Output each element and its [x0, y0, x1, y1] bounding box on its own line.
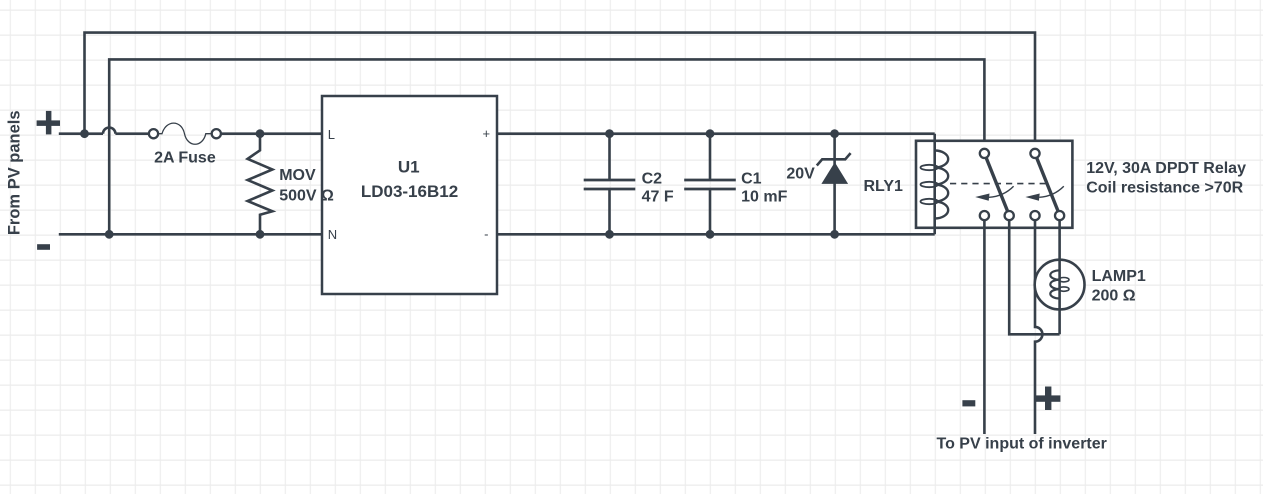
- svg-text:-: -: [484, 227, 488, 242]
- junction dots: [80, 129, 839, 238]
- wire pole2 throw2 down to lamp top: [1058, 220, 1061, 334]
- svg-text:500V Ω: 500V Ω: [279, 187, 334, 204]
- node plus terminal left (From PV panels +): [37, 111, 60, 134]
- svg-text:U1: U1: [398, 157, 420, 176]
- svg-text:2A Fuse: 2A Fuse: [154, 150, 216, 167]
- relay coil stem: [933, 134, 936, 235]
- svg-text:To PV input of inverter: To PV input of inverter: [937, 435, 1107, 452]
- op-amp U1 box LD03-16B12 converter: [322, 96, 497, 294]
- svg-text:MOV: MOV: [279, 167, 316, 184]
- svg-text:200 Ω: 200 Ω: [1092, 288, 1136, 305]
- wire hop over vertical wire at x109: [103, 127, 115, 133]
- svg-text:C1: C1: [741, 170, 762, 187]
- wire U1 + output rail to relay coil: [497, 132, 935, 135]
- capacitor C2 top stem: [608, 134, 611, 180]
- wire U1 - output rail to relay coil: [497, 233, 935, 236]
- svg-text:20V: 20V: [786, 166, 815, 183]
- wire bottom negative rail left segment: [59, 233, 322, 236]
- fuse F1 left circle: [149, 129, 158, 138]
- relay pole1 throw contacts: [980, 211, 989, 220]
- relay pole1 top contact: [980, 149, 989, 158]
- wire top positive rail start to fuse: [59, 132, 103, 135]
- wire pole2 throw1 down with hop to plus output: [1035, 220, 1042, 434]
- lamp LAMP1 circle: [1035, 260, 1085, 310]
- capacitor C1 bottom stem: [709, 189, 712, 234]
- wire W2 bottom rail to relay pole1 top: [109, 59, 984, 234]
- relay pole2 switch arm: [1037, 158, 1058, 210]
- capacitor C1 plates: [684, 180, 736, 189]
- svg-text:RLY1: RLY1: [864, 178, 904, 195]
- svg-text:12V, 30A DPDT Relay: 12V, 30A DPDT Relay: [1086, 160, 1246, 177]
- relay RLY1 box: [916, 141, 1072, 228]
- svg-text:LAMP1: LAMP1: [1092, 268, 1146, 285]
- svg-text:+: +: [483, 126, 491, 141]
- zener diode D1 20V vertical wire: [833, 134, 836, 235]
- svg-text:10 mF: 10 mF: [741, 189, 787, 206]
- wire fuse to U1 L pin: [221, 132, 322, 135]
- svg-text:C2: C2: [642, 170, 663, 187]
- relay arrow pole2: [1039, 186, 1064, 197]
- wire hop-to-fuse segment: [115, 132, 148, 135]
- relay coil loops: [935, 151, 949, 219]
- zener diode D1 triangle: [821, 162, 848, 184]
- svg-text:47 F: 47 F: [642, 189, 674, 206]
- lamp LAMP1 stem through bulb: [1058, 260, 1061, 310]
- relay pole1 switch arm: [986, 158, 1007, 210]
- relay dashed actuation line: [950, 183, 1046, 185]
- relay pole2 top contact: [1030, 149, 1039, 158]
- svg-text:LD03-16B12: LD03-16B12: [361, 182, 458, 201]
- zener diode D1 cathode bar with ticks: [817, 153, 851, 165]
- fuse F1 wave element: [158, 123, 211, 144]
- node plus terminal right (To PV input +): [1036, 387, 1060, 411]
- relay pole2 throw contacts: [1030, 211, 1039, 220]
- capacitor C1 top stem: [709, 134, 712, 180]
- svg-text:From PV panels: From PV panels: [6, 110, 24, 235]
- wire pole1 throw1 down to minus output: [983, 220, 986, 434]
- wire W1 plus rail to relay pole2 top: [85, 33, 1036, 149]
- wire pole1 throw2 down and right to lamp: [1009, 220, 1059, 334]
- svg-text:Coil resistance >70R: Coil resistance >70R: [1086, 180, 1243, 197]
- node minus terminal left (From PV panels -): [37, 244, 50, 250]
- fuse F1 right circle: [212, 129, 221, 138]
- resistor MOV vertical zigzag: [248, 134, 273, 235]
- capacitor C2 bottom stem: [608, 189, 611, 234]
- svg-text:N: N: [328, 227, 337, 242]
- relay arrow pole1: [989, 186, 1014, 197]
- capacitor C2 plates: [584, 180, 636, 189]
- svg-text:L: L: [328, 127, 335, 142]
- node minus terminal right (To PV input -): [962, 400, 975, 406]
- lamp LAMP1 filament loops: [1050, 270, 1059, 298]
